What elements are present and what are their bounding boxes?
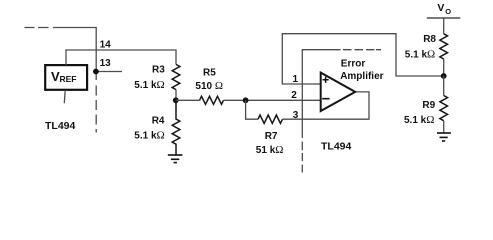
svg-text:5.1 kΩ: 5.1 kΩ — [404, 114, 434, 126]
svg-text:O: O — [445, 7, 451, 16]
ground (below R4) — [168, 155, 183, 163]
svg-text:3: 3 — [293, 110, 299, 121]
svg-text:13: 13 — [100, 58, 112, 69]
svg-text:R4: R4 — [152, 116, 165, 127]
Vo terminal — [427, 17, 461, 19]
svg-text:R7: R7 — [265, 131, 278, 142]
resistor R3 — [172, 64, 180, 89]
wire R5 to op-amp inverting input (pin 2 rail) — [224, 99, 321, 101]
wire node B down to R7 — [246, 100, 258, 119]
wire pin 14 net: VREF top to R3 top — [66, 50, 176, 65]
svg-text:5.1 kΩ: 5.1 kΩ — [134, 79, 164, 91]
wire node C to R9 — [443, 76, 445, 96]
wire R3 bottom to node A — [175, 90, 177, 101]
wire pin 3 feedback rail — [283, 92, 370, 119]
node C (R8/R9 junction) — [441, 73, 447, 79]
wire pin 13 stub — [96, 71, 122, 73]
svg-text:5.1 kΩ: 5.1 kΩ — [405, 48, 435, 60]
svg-text:1: 1 — [293, 74, 299, 85]
svg-text:51 kΩ: 51 kΩ — [256, 144, 284, 156]
node B (R5/R7 junction) — [243, 97, 249, 103]
resistor R5 — [200, 96, 224, 104]
op-amp - input mark — [322, 98, 329, 100]
svg-text:2: 2 — [291, 90, 297, 101]
VREF block V1 — [45, 65, 87, 90]
resistor R9 — [440, 96, 448, 121]
svg-text:Amplifier: Amplifier — [340, 71, 383, 82]
svg-text:5.1 kΩ: 5.1 kΩ — [134, 130, 164, 142]
wire VREF bottom stub — [63, 90, 66, 103]
resistor R8 — [440, 34, 448, 59]
wire R9 to ground — [443, 121, 445, 133]
svg-text:V: V — [437, 2, 444, 14]
TL494 IC outline (left, dashed box partial) — [25, 28, 97, 133]
svg-text:TL494: TL494 — [321, 141, 352, 153]
wire pin 1 net: Vo divider to op-amp non-inverting input — [282, 34, 443, 84]
svg-text:R8: R8 — [423, 34, 436, 45]
node A (R3/R4/R5 junction) — [173, 97, 179, 103]
ground (below R9) — [437, 133, 451, 141]
wire R8 bottom to node C — [443, 59, 445, 76]
resistor R7 — [258, 115, 282, 123]
svg-text:R9: R9 — [422, 100, 435, 111]
svg-text:R3: R3 — [152, 65, 165, 76]
wire node A to R5 — [176, 99, 200, 101]
wire Vo to R8 — [443, 18, 445, 34]
TL494 IC outline (right, dashed box partial) — [302, 50, 381, 173]
svg-text:TL494: TL494 — [45, 120, 76, 132]
svg-text:Error: Error — [341, 58, 366, 69]
node junction pin13/VREF — [93, 69, 99, 75]
op-amp + input mark — [323, 77, 329, 83]
svg-text:R5: R5 — [203, 67, 216, 78]
svg-text:REF: REF — [60, 74, 77, 84]
svg-text:510 Ω: 510 Ω — [195, 80, 223, 92]
svg-text:14: 14 — [100, 40, 112, 51]
resistor R4 — [172, 100, 180, 155]
op-amp U1 (error amplifier) — [321, 73, 356, 111]
